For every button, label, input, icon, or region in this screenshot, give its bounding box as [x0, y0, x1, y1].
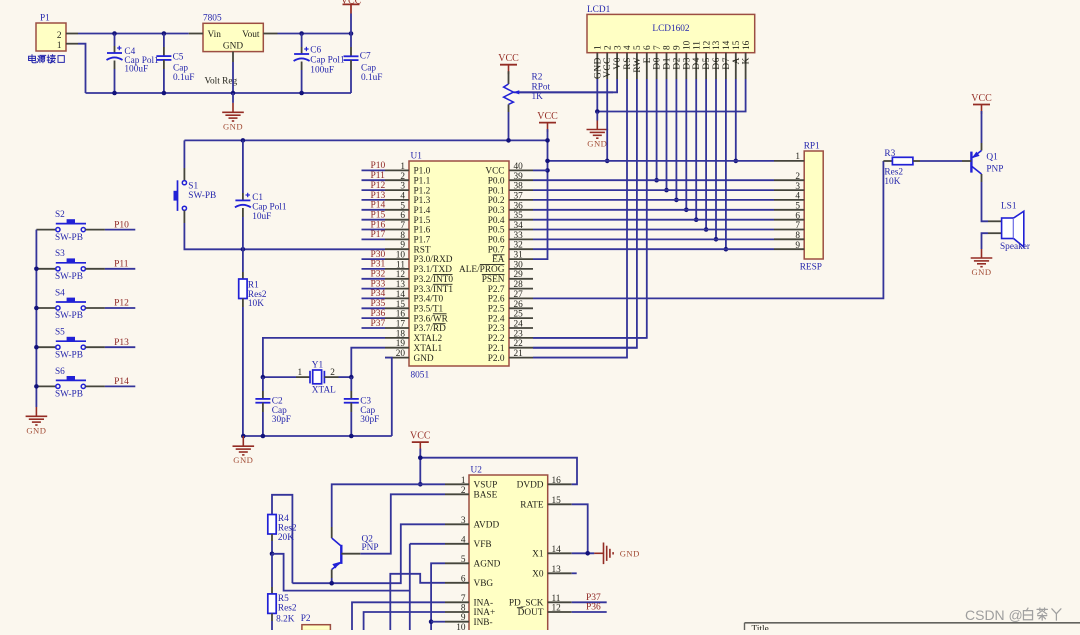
svg-text:18: 18	[396, 329, 406, 339]
svg-text:U1: U1	[411, 152, 423, 162]
svg-text:6: 6	[795, 211, 800, 221]
svg-text:15: 15	[732, 40, 742, 50]
svg-text:P37: P37	[371, 319, 386, 329]
svg-text:P11: P11	[371, 171, 386, 181]
wire P0.4 row	[533, 219, 774, 221]
svg-text:5: 5	[461, 555, 466, 565]
svg-text:Cap Pol1: Cap Pol1	[310, 56, 345, 66]
svg-text:10: 10	[456, 623, 466, 630]
junction	[241, 247, 246, 252]
svg-text:D1: D1	[663, 57, 673, 70]
svg-text:16: 16	[742, 40, 752, 50]
svg-text:40: 40	[514, 162, 524, 172]
svg-text:12: 12	[396, 270, 406, 280]
svg-text:11: 11	[552, 594, 561, 604]
svg-text:P0.0: P0.0	[488, 176, 505, 186]
net label P35	[362, 299, 386, 309]
voltage regulator 7805	[189, 14, 278, 87]
net label P31	[362, 260, 386, 270]
svg-text:26: 26	[514, 300, 524, 310]
ground GND supply	[222, 93, 244, 131]
svg-text:P3.6/WR: P3.6/WR	[414, 314, 449, 324]
svg-text:P0.1: P0.1	[488, 186, 505, 196]
wire LCD D0 pin 7	[654, 79, 659, 183]
ground GND X1 (rotated)	[594, 543, 640, 565]
svg-text:INB-: INB-	[474, 618, 493, 628]
net label P36	[572, 603, 607, 613]
svg-text:19: 19	[396, 339, 406, 349]
wire INA- wire	[352, 602, 445, 630]
wire LCD D1 pin 8	[664, 79, 669, 192]
svg-text:23: 23	[514, 329, 524, 339]
svg-text:1: 1	[400, 162, 405, 172]
svg-text:Cap: Cap	[361, 64, 376, 74]
net label P34	[362, 289, 386, 299]
svg-text:R1: R1	[248, 280, 259, 290]
svg-text:6: 6	[400, 211, 405, 221]
wire P2.0 to RS	[533, 357, 627, 359]
transistor Q2 PNP	[332, 527, 379, 578]
svg-text:S5: S5	[55, 328, 65, 338]
LCD display LCD1	[587, 5, 755, 79]
net label P33	[362, 279, 386, 289]
svg-text:R5: R5	[278, 594, 289, 604]
svg-text:6: 6	[643, 45, 653, 50]
svg-text:2: 2	[330, 368, 335, 378]
svg-text:INA+: INA+	[474, 608, 496, 618]
svg-text:P3.4/T0: P3.4/T0	[414, 295, 444, 305]
svg-text:100uF: 100uF	[310, 65, 334, 75]
wire P0.2 row	[533, 199, 774, 201]
wire R3 to Q1 base	[920, 160, 962, 162]
svg-text:S1: S1	[188, 181, 198, 191]
svg-text:3: 3	[400, 182, 405, 192]
junction	[418, 455, 423, 486]
svg-text:C3: C3	[360, 396, 371, 406]
svg-text:8: 8	[400, 231, 405, 241]
svg-text:8: 8	[663, 45, 673, 50]
wire LS1 to ground	[982, 233, 989, 249]
power VCC mcu	[537, 111, 558, 132]
svg-text:14: 14	[552, 545, 562, 555]
svg-text:GND: GND	[223, 42, 243, 52]
connector P1	[29, 14, 78, 64]
svg-text:XTAL1: XTAL1	[414, 344, 443, 354]
svg-text:13: 13	[712, 40, 722, 50]
potentiometer R2	[504, 71, 551, 112]
svg-text:P3.5/T1: P3.5/T1	[414, 305, 444, 315]
svg-text:9: 9	[461, 613, 466, 623]
svg-text:GND: GND	[223, 121, 243, 131]
svg-text:C7: C7	[360, 52, 371, 62]
svg-text:Speaker: Speaker	[1000, 242, 1031, 252]
svg-text:1: 1	[461, 476, 466, 486]
svg-text:8051: 8051	[411, 371, 430, 381]
svg-text:2: 2	[603, 45, 613, 50]
wire Q1 collector to LS1	[982, 182, 989, 221]
svg-text:SW-PB: SW-PB	[55, 350, 83, 360]
svg-text:P2: P2	[301, 614, 311, 624]
svg-text:VFB: VFB	[474, 540, 492, 550]
svg-text:8: 8	[795, 231, 800, 241]
svg-text:P1.5: P1.5	[414, 216, 431, 226]
svg-text:D2: D2	[672, 57, 682, 70]
wire P0.5 row	[533, 229, 774, 231]
wire VCC vertical	[533, 129, 548, 259]
junction	[241, 138, 550, 143]
svg-text:24: 24	[514, 320, 524, 330]
svg-text:27: 27	[514, 290, 524, 300]
svg-text:P2.4: P2.4	[488, 314, 505, 324]
svg-text:25: 25	[514, 310, 524, 320]
wire VFB divider net	[272, 544, 445, 630]
svg-text:P3.2/INT0: P3.2/INT0	[414, 275, 454, 285]
svg-text:P35: P35	[371, 299, 386, 309]
net label P14	[362, 201, 386, 211]
svg-text:SW-PB: SW-PB	[55, 272, 83, 282]
ground GND xtal	[233, 436, 255, 465]
svg-text:8: 8	[461, 604, 466, 614]
svg-text:20: 20	[396, 349, 406, 359]
svg-text:39: 39	[514, 172, 524, 182]
svg-text:R4: R4	[278, 514, 289, 524]
svg-text:ALE/PROG: ALE/PROG	[459, 265, 505, 275]
wire VBG net	[390, 574, 445, 630]
capacitor C1	[235, 140, 287, 249]
net label P17	[362, 230, 386, 240]
svg-text:XTAL: XTAL	[312, 386, 336, 396]
svg-text:RESP: RESP	[800, 263, 822, 273]
svg-text:GND: GND	[971, 267, 991, 277]
svg-text:D6: D6	[712, 57, 722, 70]
wire INB- wire	[431, 621, 445, 623]
svg-text:P3.7/RD: P3.7/RD	[414, 324, 447, 334]
wire P0.0 row	[533, 179, 774, 181]
svg-text:GND: GND	[233, 455, 253, 465]
svg-text:R3: R3	[884, 149, 895, 159]
svg-text:V0: V0	[613, 57, 623, 70]
svg-text:4: 4	[400, 191, 405, 201]
svg-text:9: 9	[795, 241, 800, 251]
svg-text:8.2K: 8.2K	[276, 615, 295, 625]
svg-text:21: 21	[514, 349, 524, 359]
junction	[429, 619, 434, 624]
svg-text:GND: GND	[587, 139, 607, 149]
svg-text:R2: R2	[532, 72, 543, 82]
svg-text:S4: S4	[55, 288, 65, 298]
svg-text:RP1: RP1	[804, 142, 820, 152]
svg-text:P3.0/RXD: P3.0/RXD	[414, 255, 453, 265]
svg-text:CSDN @: CSDN @	[965, 607, 1023, 623]
svg-text:C2: C2	[272, 396, 283, 406]
svg-text:X0: X0	[532, 570, 544, 580]
wire LCD D3 pin 10	[684, 79, 689, 212]
svg-text:VCC: VCC	[410, 431, 431, 442]
svg-text:14: 14	[722, 40, 732, 50]
svg-text:LCD1602: LCD1602	[652, 24, 690, 34]
svg-text:2: 2	[795, 172, 800, 182]
power VCC U2	[410, 431, 431, 452]
title block	[745, 623, 1080, 635]
svg-text:P2.7: P2.7	[488, 285, 505, 295]
svg-text:P3.1/TXD: P3.1/TXD	[414, 265, 453, 275]
wire LCD GND (pins 1,16)	[597, 79, 745, 112]
junction	[585, 551, 590, 556]
svg-text:VCC: VCC	[603, 57, 613, 78]
svg-text:15: 15	[552, 496, 562, 506]
svg-text:S6: S6	[55, 367, 65, 377]
svg-text:INA-: INA-	[474, 599, 494, 609]
wire Q2 emitter to AVDD net	[292, 524, 445, 583]
svg-text:P1.0: P1.0	[414, 167, 431, 177]
net label P13	[362, 191, 386, 201]
svg-text:P2.1: P2.1	[488, 344, 505, 354]
svg-text:P3.3/INT1: P3.3/INT1	[414, 285, 454, 295]
svg-text:D5: D5	[702, 57, 712, 70]
net label P12	[362, 181, 386, 191]
net label P10	[105, 220, 135, 230]
speaker LS1	[988, 202, 1031, 252]
svg-text:Title: Title	[752, 624, 769, 630]
switch S5	[36, 328, 105, 361]
wire LCD E pin 6	[533, 79, 647, 338]
svg-text:100uF: 100uF	[124, 65, 148, 75]
svg-text:RATE: RATE	[520, 501, 544, 511]
net label P32	[362, 270, 386, 280]
net label P16	[362, 220, 386, 230]
svg-text:5: 5	[795, 202, 800, 212]
switch S1	[174, 140, 386, 249]
svg-text:DOUT: DOUT	[518, 608, 544, 618]
svg-text:10K: 10K	[884, 177, 900, 187]
svg-text:Y1: Y1	[312, 360, 324, 370]
junction	[270, 552, 275, 557]
capacitor C6	[294, 34, 345, 94]
resistor R1	[239, 249, 267, 436]
svg-text:P0.4: P0.4	[488, 216, 505, 226]
svg-text:10: 10	[683, 40, 693, 50]
svg-text:9: 9	[673, 45, 683, 50]
svg-text:7: 7	[653, 45, 663, 50]
svg-text:28: 28	[514, 280, 524, 290]
svg-text:SW-PB: SW-PB	[188, 191, 216, 201]
wire XTAL1 net	[351, 348, 385, 377]
svg-text:33: 33	[514, 231, 524, 241]
svg-text:P13: P13	[114, 338, 129, 348]
svg-text:AVDD: AVDD	[474, 521, 500, 531]
svg-text:20K: 20K	[278, 533, 294, 543]
wire switch ground rail	[35, 230, 37, 407]
switch S6	[36, 367, 105, 400]
junction	[595, 109, 600, 114]
wire VCC pin 40	[533, 169, 548, 171]
svg-text:P10: P10	[114, 220, 129, 230]
svg-text:P1.4: P1.4	[414, 206, 431, 216]
svg-text:6: 6	[461, 574, 466, 584]
wire supply ground rail	[86, 92, 352, 94]
svg-text:P32: P32	[371, 270, 386, 280]
svg-text:1K: 1K	[532, 92, 544, 102]
ADC U2	[445, 466, 572, 633]
svg-text:PD_SCK: PD_SCK	[509, 599, 544, 609]
junction	[241, 434, 354, 439]
wire LCD V0 pin 3	[514, 79, 618, 92]
svg-text:38: 38	[514, 182, 524, 192]
wire X1 net	[572, 552, 595, 554]
svg-text:K: K	[742, 57, 752, 64]
svg-text:P12: P12	[114, 299, 129, 309]
capacitor C3	[344, 377, 380, 436]
net label P11	[362, 171, 386, 181]
junction	[329, 581, 334, 586]
switch S4	[36, 288, 105, 321]
capacitor C7	[344, 34, 383, 94]
svg-text:Cap: Cap	[173, 64, 188, 74]
wire INA+ wire	[364, 612, 445, 630]
wire VCC horizontal rail	[184, 139, 547, 141]
svg-text:Res2: Res2	[278, 604, 297, 614]
svg-text:X1: X1	[532, 550, 544, 560]
svg-text:P37: P37	[586, 593, 601, 603]
svg-text:EA: EA	[492, 255, 505, 265]
svg-text:5: 5	[633, 45, 643, 50]
svg-text:11: 11	[692, 41, 702, 50]
svg-text:17: 17	[396, 320, 406, 330]
svg-text:DVDD: DVDD	[517, 481, 544, 491]
resistor pack RP1 pins	[774, 152, 804, 251]
svg-text:P17: P17	[371, 230, 386, 240]
svg-text:P12: P12	[371, 181, 386, 191]
net label P14	[105, 377, 135, 387]
junction	[299, 31, 353, 36]
wire P0.7 row	[533, 248, 774, 250]
svg-text:SW-PB: SW-PB	[55, 390, 83, 400]
net label P13	[105, 338, 135, 348]
svg-text:P11: P11	[114, 260, 129, 270]
svg-text:VCC: VCC	[537, 111, 558, 122]
svg-text:P36: P36	[586, 603, 601, 613]
wire LCD D2 pin 9	[674, 79, 679, 202]
svg-text:A: A	[732, 57, 742, 64]
wire LCD D5 pin 12	[704, 79, 709, 232]
crystal Y1	[263, 360, 351, 395]
svg-text:P15: P15	[371, 211, 386, 221]
svg-text:1: 1	[795, 152, 800, 162]
junction	[112, 91, 304, 96]
wire VCC to VSUP and DVDD	[420, 449, 577, 485]
svg-text:P10: P10	[371, 161, 386, 171]
wire U1 GND pin	[385, 358, 392, 436]
svg-text:30pF: 30pF	[360, 415, 379, 425]
svg-text:0.1uF: 0.1uF	[361, 73, 382, 83]
svg-text:P2.0: P2.0	[488, 354, 505, 364]
svg-text:P1.6: P1.6	[414, 226, 431, 236]
svg-text:P0.5: P0.5	[488, 226, 505, 236]
svg-text:4: 4	[623, 45, 633, 50]
svg-text:RS: RS	[623, 57, 633, 70]
wire P0.3 row	[533, 209, 774, 211]
wire VCC to RP1 rail	[548, 160, 775, 162]
capacitor C5	[156, 34, 194, 94]
svg-text:0.1uF: 0.1uF	[173, 73, 194, 83]
svg-text:35: 35	[514, 211, 524, 221]
svg-text:3: 3	[613, 45, 623, 50]
svg-text:RST: RST	[414, 245, 431, 255]
svg-text:5: 5	[400, 201, 405, 211]
svg-text:32: 32	[514, 241, 524, 251]
microcontroller U1 8051	[385, 152, 533, 381]
wire LCD VCC pin 2	[606, 79, 608, 161]
svg-text:P0.7: P0.7	[488, 245, 505, 255]
capacitor C2	[255, 377, 291, 436]
svg-text:Res2: Res2	[278, 524, 297, 534]
svg-text:P30: P30	[371, 250, 386, 260]
wire RATE net	[572, 504, 588, 553]
wire AGND net	[431, 563, 445, 630]
svg-text:2: 2	[57, 31, 62, 41]
svg-text:P16: P16	[371, 220, 386, 230]
svg-text:Vout: Vout	[242, 30, 260, 40]
wire VIN top rail	[78, 34, 189, 94]
wire xtal ground rail	[243, 435, 391, 437]
svg-text:16: 16	[552, 476, 562, 486]
svg-text:P33: P33	[371, 279, 386, 289]
power VCC Q1	[971, 93, 992, 114]
svg-text:16: 16	[396, 310, 406, 320]
svg-text:30pF: 30pF	[272, 415, 291, 425]
wire P2.6 to R3	[533, 161, 883, 298]
svg-text:13: 13	[396, 280, 406, 290]
svg-text:VSUP: VSUP	[474, 481, 498, 491]
svg-text:SW-PB: SW-PB	[55, 311, 83, 321]
svg-text:P31: P31	[371, 260, 386, 270]
svg-text:P34: P34	[371, 289, 386, 299]
svg-text:S3: S3	[55, 249, 65, 259]
watermark CSDN	[965, 607, 1061, 623]
svg-text:P2.3: P2.3	[488, 324, 505, 334]
svg-text:P1.7: P1.7	[414, 236, 431, 246]
wire VSUP to Q2 collector	[332, 484, 445, 527]
net label P11	[105, 260, 135, 270]
svg-text:VCC: VCC	[971, 93, 992, 104]
wire VCC output rail	[278, 33, 352, 35]
switch S2	[36, 210, 105, 243]
svg-text:15: 15	[396, 300, 406, 310]
wire LCD D6 pin 13	[714, 79, 719, 242]
wire P0.6 row	[533, 238, 774, 240]
svg-text:4: 4	[795, 192, 800, 202]
svg-text:7: 7	[400, 221, 405, 231]
svg-text:P36: P36	[371, 309, 386, 319]
ground GND keys	[26, 407, 48, 435]
svg-text:RW: RW	[633, 57, 643, 73]
transistor Q1 PNP	[962, 111, 1003, 182]
junction	[34, 267, 39, 389]
wire R2 wiper to V0	[520, 91, 613, 93]
wire P2.2 to E	[533, 337, 647, 339]
svg-text:U2: U2	[471, 466, 483, 476]
svg-text:PNP: PNP	[362, 543, 379, 553]
svg-text:P0.3: P0.3	[488, 206, 505, 216]
svg-text:29: 29	[514, 270, 524, 280]
svg-text:10: 10	[396, 251, 406, 261]
svg-text:7: 7	[795, 221, 800, 231]
svg-text:12: 12	[702, 40, 712, 50]
svg-text:30: 30	[514, 260, 524, 270]
net label P12	[105, 299, 135, 309]
junction	[545, 159, 550, 173]
net label P15	[362, 211, 386, 221]
